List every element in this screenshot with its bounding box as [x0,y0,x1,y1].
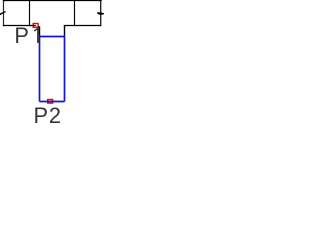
wire: blue left vertical from P1 pin down [39,35,41,102]
divider wire at x=74.5 [74,0,76,26]
squiggle mark on left edge [0,11,6,15]
svg-text:P2: P2 [34,103,62,123]
wire: blue right vertical [64,35,66,102]
wire: blue horizontal rung [40,36,65,38]
divider wire at x=29.5 [29,0,31,26]
component body left edge (wire) [3,0,5,26]
pin stub from P1 square (black, right then down) [38,27,39,35]
component body top edge (wire) [3,0,102,1]
terminal pin marker P2 (red square) [48,100,53,104]
left cell bottom edge (wire), runs under P1 square to the pin point [3,25,36,27]
squiggle mark on right edge [97,12,104,15]
component body right edge (wire) [100,0,102,26]
label P1 digit 1 (drawn without foot serif) [37,28,39,43]
svg-text:P: P [14,23,29,48]
pin stub below right cell corner [64,26,66,36]
wire: blue bottom rung through P2 square [40,101,65,103]
right cell bottom edge (wire) [64,25,102,27]
terminal pin marker P1 (red square) [33,24,38,28]
